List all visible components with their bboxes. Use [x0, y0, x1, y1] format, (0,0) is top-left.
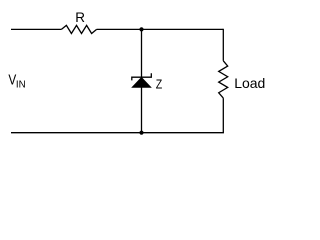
wire bottom return — [11, 132, 224, 134]
wire right vertical bottom — [222, 98, 224, 133]
wire top (resistor R to top-right corner) — [97, 28, 224, 30]
node junction dot top (zener tap) — [139, 27, 143, 31]
svg-text:Z: Z — [156, 77, 163, 92]
wire zener top lead — [141, 29, 143, 77]
zener diode Z anode triangle — [132, 77, 151, 87]
node junction dot bottom — [139, 131, 143, 135]
zener diode Z cathode bar — [132, 73, 152, 80]
wire zener bottom lead — [141, 87, 143, 132]
resistor R — [61, 25, 96, 33]
svg-text:IN: IN — [16, 80, 26, 91]
svg-text:Load: Load — [234, 75, 265, 91]
wire right vertical top (to load) — [222, 29, 224, 61]
wire top-left (Vin+ to resistor R) — [11, 28, 61, 30]
svg-text:R: R — [75, 10, 85, 25]
resistor Load — [219, 61, 228, 98]
